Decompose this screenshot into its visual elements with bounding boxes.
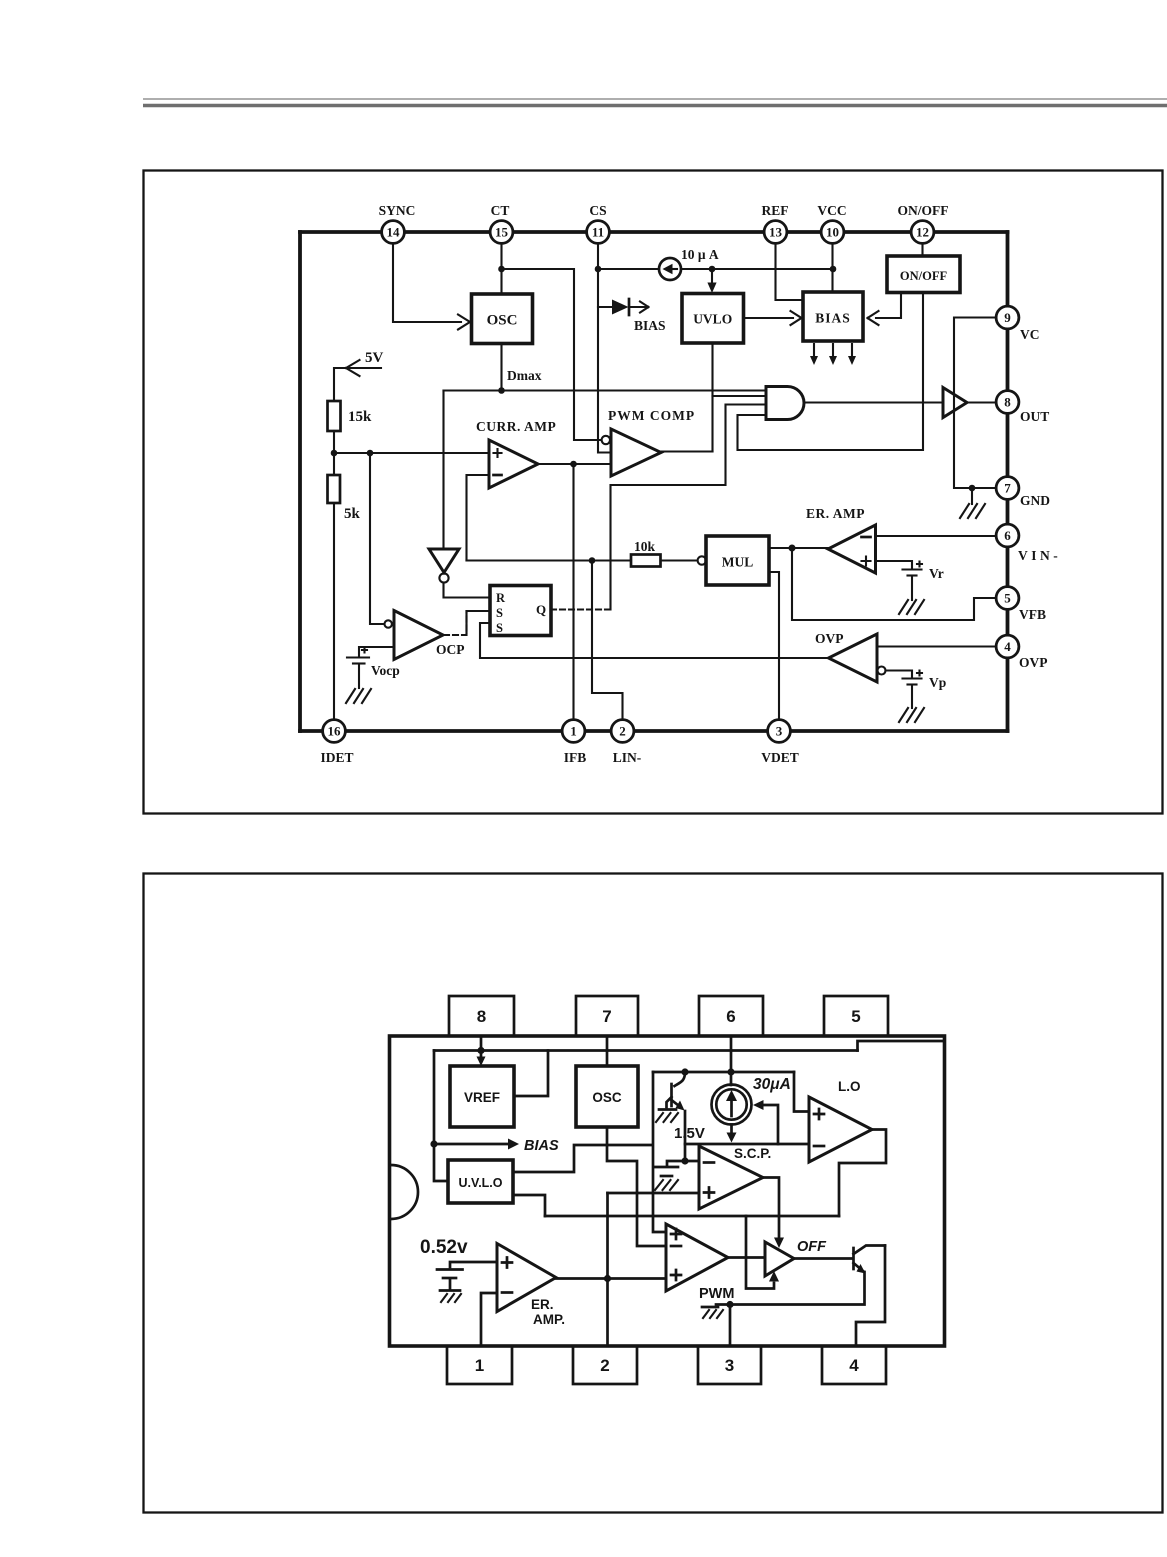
comparator S.C.P.: [699, 1146, 763, 1209]
wire UVLO upper output: [513, 1145, 653, 1172]
wire rail left corner down to PWM + top: [653, 1072, 666, 1232]
wire branch down to OFF gate bottom arrow: [746, 1216, 774, 1289]
comparator PWM: [666, 1224, 728, 1291]
wire control line to OFF gate and LO output: [545, 1215, 839, 1218]
svg-text:OVP: OVP: [815, 631, 844, 646]
svg-text:ER. AMP: ER. AMP: [806, 506, 865, 521]
ground below Vocp: [346, 689, 371, 703]
wire OVP input from pin 4: [877, 645, 996, 647]
wire OFF output to transistor base: [794, 1257, 852, 1260]
node PWM ground: [726, 1301, 733, 1308]
wire Dmax to inverter: [442, 391, 444, 550]
svg-text:VCC: VCC: [817, 203, 846, 218]
wire pin12 stub to ON/OFF block: [921, 244, 923, 257]
svg-text:2: 2: [600, 1356, 609, 1375]
svg-text:ER.: ER.: [531, 1297, 554, 1312]
svg-text:BIAS: BIAS: [815, 311, 851, 326]
svg-text:CURR. AMP: CURR. AMP: [476, 419, 556, 434]
wire OVP bubble to Vp: [886, 671, 913, 678]
svg-text:5: 5: [851, 1007, 860, 1026]
arrowhead into OFF gate top: [774, 1238, 784, 1249]
pin box 7: [576, 996, 638, 1036]
wire BIAS arrow: [434, 1143, 510, 1146]
svg-text:U.V.L.O: U.V.L.O: [459, 1176, 503, 1190]
svg-text:VREF: VREF: [464, 1090, 500, 1105]
wire buffer to OUT pin: [967, 401, 996, 403]
pin 12 ON/OFF: [898, 203, 949, 243]
buffer output stage: [943, 388, 967, 418]
op-amp ER AMP: [497, 1244, 556, 1312]
svg-text:REF: REF: [762, 203, 789, 218]
wire pin 8 rail: [434, 1037, 858, 1051]
wire UVLO down / PWM COMP output riser: [711, 344, 713, 452]
battery Vr plus mark: [917, 562, 922, 567]
IC notch: [391, 1165, 418, 1219]
wire RS-FF Q to AND gate input 3: [611, 405, 767, 610]
svg-text:CT: CT: [491, 203, 510, 218]
svg-text:IDET: IDET: [320, 750, 353, 765]
wire arrow into UVLO top: [711, 269, 713, 285]
wire VC rail to GND rail through buffer: [954, 318, 996, 489]
wire PWM output to OFF gate: [728, 1256, 765, 1259]
svg-text:Vp: Vp: [929, 675, 946, 690]
node OCP branch: [367, 450, 374, 457]
pin 2 LIN-: [611, 720, 641, 765]
arrowhead 5V: [346, 360, 360, 376]
resistor 10k: [631, 555, 661, 567]
wire REF pin to BIAS: [776, 244, 804, 301]
svg-text:15k: 15k: [348, 409, 372, 425]
pin 11 CS: [587, 203, 610, 243]
wire FB riser pin 2: [606, 1193, 609, 1346]
svg-text:OVP: OVP: [1019, 655, 1048, 670]
svg-text:VIN-: VIN-: [1018, 548, 1061, 563]
node VFB: [789, 545, 796, 552]
wire CURR AMP - feedback: [467, 475, 490, 561]
ground below Vp: [899, 708, 924, 722]
svg-text:CS: CS: [589, 203, 606, 218]
wire 15k to node: [333, 431, 335, 475]
IC boundary right bus: [1006, 232, 1010, 731]
block ON/OFF: [887, 256, 960, 293]
bubble MUL input: [698, 556, 706, 564]
pin 3 VDET: [761, 720, 799, 765]
pin 4 OVP: [996, 635, 1047, 670]
IC boundary bottom bus: [300, 729, 1008, 733]
svg-text:10: 10: [826, 225, 839, 240]
wire OSC Dmax output: [500, 344, 502, 391]
wire CS node to 10uA source and VCC node: [598, 268, 833, 270]
wire CT pin down to OSC top: [500, 244, 502, 295]
pin 16 IDET: [320, 720, 353, 765]
svg-text:OSC: OSC: [487, 313, 518, 329]
svg-text:3: 3: [725, 1356, 734, 1375]
wire current source mirror loop: [760, 1105, 778, 1144]
svg-text:PWM COMP: PWM COMP: [608, 408, 695, 423]
svg-text:S: S: [496, 606, 503, 620]
node UVLO feed: [709, 266, 716, 273]
figure frame (block diagram 2): [144, 874, 1163, 1513]
pin box 8: [449, 996, 514, 1036]
IC boundary top bus: [300, 230, 1008, 234]
op-amp CURR AMP: [489, 440, 538, 488]
battery 0.52V: [437, 1270, 463, 1290]
wire SCP + from FB line: [608, 1192, 700, 1195]
wire OCP + input to Vocp: [359, 647, 394, 656]
wire ON/OFF block to BIAS with arrowhead: [868, 293, 902, 325]
ground below SCP battery: [655, 1180, 678, 1190]
wire MUL output to ER AMP: [769, 547, 828, 549]
svg-text:L.O: L.O: [838, 1079, 861, 1094]
wire LO output return: [839, 1130, 886, 1217]
svg-text:6: 6: [1004, 528, 1011, 543]
block VREF: [450, 1066, 514, 1127]
pin box 5: [824, 996, 888, 1036]
svg-text:VDET: VDET: [761, 750, 799, 765]
wire 10k to MUL bubble: [661, 559, 698, 561]
pin 6 VIN-: [996, 524, 1061, 563]
svg-text:1: 1: [475, 1356, 484, 1375]
bubble OCP input: [385, 620, 392, 627]
ground at PWM: [702, 1305, 730, 1319]
header double rule: [143, 99, 1167, 106]
svg-text:9: 9: [1004, 310, 1011, 325]
wire ER AMP - to VIN- pin: [876, 535, 997, 537]
node BIAS: [430, 1140, 437, 1147]
svg-text:0.52v: 0.52v: [420, 1237, 468, 1258]
svg-text:15: 15: [495, 225, 509, 240]
pin box 3: [698, 1346, 761, 1384]
block MUL: [706, 536, 769, 585]
BIAS output arrows down: [810, 344, 856, 365]
svg-text:UVLO: UVLO: [693, 312, 732, 327]
svg-text:LIN-: LIN-: [613, 750, 642, 765]
op-amp ER AMP: [828, 525, 876, 573]
svg-text:MUL: MUL: [722, 555, 754, 570]
op-amp PWM COMP: [611, 429, 661, 476]
wire pin 6 stub: [730, 1037, 733, 1085]
current source 10uA: [659, 258, 681, 280]
inverter: [429, 549, 459, 583]
svg-text:5: 5: [1004, 591, 1011, 606]
wire VCC pin to BIAS top: [831, 244, 833, 293]
pin 10 VCC: [817, 203, 846, 243]
bubble OVP reference input: [878, 667, 886, 675]
wire AND output to buffer: [805, 401, 944, 403]
wire resistor node to CURR AMP +: [334, 452, 489, 454]
wire pin 7 to OSC: [606, 1037, 609, 1066]
wire 5V feed: [334, 368, 381, 401]
svg-text:8: 8: [477, 1007, 486, 1026]
wire pin 8 rail riser to top edge: [858, 1041, 944, 1051]
wire node to SCP - input: [685, 1160, 699, 1163]
svg-text:OUT: OUT: [1020, 409, 1049, 424]
pin 9 VC: [996, 306, 1039, 342]
wire UVLO to BIAS with arrowhead: [744, 311, 802, 325]
svg-text:SYNC: SYNC: [379, 203, 416, 218]
op-amp OVP: [829, 634, 878, 682]
ground below 0.52V battery: [440, 1291, 461, 1303]
wire ER AMP + to Vr: [876, 561, 913, 568]
svg-text:4: 4: [849, 1356, 859, 1375]
ground at transistor base: [656, 1110, 678, 1123]
svg-text:Q: Q: [536, 602, 546, 617]
svg-text:OFF: OFF: [797, 1239, 827, 1255]
pin box 1: [447, 1346, 512, 1384]
svg-text:GND: GND: [1020, 493, 1050, 508]
bubble PWM COMP inverting input: [602, 436, 610, 444]
svg-text:2: 2: [619, 724, 626, 739]
svg-text:VC: VC: [1020, 327, 1040, 342]
pin 7 GND: [996, 477, 1050, 508]
svg-text:3: 3: [776, 724, 783, 739]
IC package body: [390, 1036, 945, 1346]
node LIN-: [589, 557, 596, 564]
node CS branch: [595, 266, 602, 273]
arrow into VREF: [480, 1051, 483, 1059]
wire emitter node rail to LO -: [685, 1143, 809, 1146]
wire OCP output to RS-FF S input: [444, 611, 490, 635]
svg-text:BIAS: BIAS: [524, 1138, 559, 1154]
pin 14 SYNC: [379, 203, 416, 243]
wire RS-FF Q output (dashed): [551, 608, 611, 610]
wire Dmax line to AND gate input 1: [444, 389, 767, 391]
svg-text:5V: 5V: [365, 350, 384, 366]
wire minus feedback to 10k: [467, 559, 632, 561]
svg-text:R: R: [496, 591, 506, 605]
svg-text:Dmax: Dmax: [507, 368, 542, 383]
op-amp OCP: [394, 611, 443, 660]
svg-text:S: S: [496, 621, 503, 635]
wire CURR AMP output: [538, 463, 611, 465]
node SCP minus: [681, 1157, 688, 1164]
svg-text:8: 8: [1004, 395, 1011, 410]
wire transistor collector to pin 4: [856, 1246, 885, 1347]
svg-text:7: 7: [602, 1007, 611, 1026]
wire LIN- node to pin 2: [592, 561, 623, 720]
svg-text:16: 16: [328, 724, 342, 739]
svg-text:6: 6: [726, 1007, 735, 1026]
pin 13 REF: [762, 203, 789, 243]
node resistor divider: [331, 450, 338, 457]
wire MUL to VDET pin 3: [769, 572, 779, 720]
wire left rail to UVLO: [434, 1051, 448, 1182]
wire CS pin down to PWM COMP input: [598, 244, 611, 453]
pin box 4: [822, 1346, 886, 1384]
comparator L.O: [809, 1097, 872, 1162]
node IFB: [570, 461, 577, 468]
transistor output: [730, 1246, 885, 1305]
wire OSC output to PWM -: [607, 1127, 666, 1246]
wire rail right corner to LO +: [794, 1072, 809, 1112]
transistor clamp 1.5V: [667, 1072, 686, 1111]
svg-text:10k: 10k: [634, 539, 656, 554]
gate OFF: [765, 1242, 794, 1276]
wire VREF output riser to pin8 rail: [514, 1051, 548, 1097]
svg-text:1: 1: [570, 724, 577, 739]
svg-text:Vr: Vr: [929, 566, 944, 581]
wire ER AMP + input: [450, 1262, 497, 1267]
and-gate: [766, 387, 804, 420]
pin 1 IFB: [562, 720, 586, 765]
wire VFB node to pin 5: [792, 548, 996, 620]
battery Vocp plus mark: [362, 648, 367, 653]
wire emitter down to SCP - node: [684, 1111, 687, 1161]
svg-text:30μA: 30μA: [753, 1076, 791, 1093]
wire 5k to pin 16: [333, 503, 335, 720]
wire AND gate input 2: [713, 395, 767, 397]
node current source top: [727, 1068, 734, 1075]
flip-flop RS: [490, 586, 551, 636]
arrowhead into OFF gate bottom: [769, 1271, 779, 1282]
svg-text:Vocp: Vocp: [371, 663, 400, 678]
wire ER AMP output to PWM +: [556, 1277, 666, 1280]
svg-text:OSC: OSC: [592, 1090, 622, 1105]
svg-text:12: 12: [916, 225, 929, 240]
wire ON/OFF block to AND gate input 4: [738, 293, 924, 450]
svg-text:ON/OFF: ON/OFF: [898, 203, 949, 218]
diode BIAS: [612, 299, 649, 315]
svg-text:4: 4: [1004, 639, 1011, 654]
resistor 5k: [328, 475, 341, 503]
wire IFB node to pin 1: [572, 464, 574, 720]
figure frame (block diagram 1): [144, 171, 1163, 814]
node FB: [604, 1275, 611, 1282]
svg-text:PWM: PWM: [699, 1286, 734, 1302]
node VCC to BIAS: [830, 266, 837, 273]
pin box 6: [699, 996, 763, 1036]
block BIAS: [803, 292, 863, 341]
svg-text:13: 13: [769, 225, 783, 240]
svg-text:OCP: OCP: [436, 642, 465, 657]
wire pin 1 to ER AMP -: [481, 1293, 497, 1346]
wire SCP output to OFF gate top: [763, 1178, 779, 1238]
block U.V.L.O: [448, 1160, 513, 1203]
svg-text:AMP.: AMP.: [533, 1312, 565, 1327]
wire OCP inverting input from divider: [370, 453, 384, 624]
svg-text:VFB: VFB: [1019, 607, 1046, 622]
battery Vr: [903, 570, 922, 601]
wire current source bottom arrow: [730, 1125, 733, 1134]
wire diode branch from CS line: [598, 306, 612, 308]
wire pin 6 sub rail: [653, 1071, 794, 1074]
battery Vp: [903, 679, 922, 709]
pin 5 VFB: [996, 587, 1046, 622]
node CT branch: [498, 266, 505, 273]
node Dmax: [498, 387, 505, 394]
battery SCP reference: [655, 1161, 685, 1176]
battery Vocp: [347, 658, 369, 689]
svg-text:1.5V: 1.5V: [674, 1125, 705, 1142]
current source 30uA: [712, 1085, 752, 1125]
svg-text:7: 7: [1004, 481, 1011, 496]
block UVLO: [682, 294, 744, 344]
wire inverter to RS-FF R input: [444, 583, 491, 598]
svg-text:IFB: IFB: [564, 750, 587, 765]
pin 8 OUT: [996, 391, 1049, 424]
wire PWM COMP output: [661, 450, 713, 452]
wire UVLO lower output: [513, 1195, 545, 1216]
pin box 2: [573, 1346, 637, 1384]
ground below Vr: [899, 600, 924, 614]
ground at GND pin: [960, 488, 985, 518]
block OSC: [576, 1066, 638, 1127]
pin 15 CT: [490, 203, 513, 243]
wire pin 3 riser: [729, 1305, 732, 1347]
wire SYNC pin to OSC input: [393, 244, 461, 323]
svg-text:11: 11: [592, 225, 604, 240]
arrowhead into OSC: [458, 315, 470, 330]
resistor 15k: [328, 401, 341, 431]
svg-text:14: 14: [387, 225, 401, 240]
svg-text:S.C.P.: S.C.P.: [734, 1146, 771, 1161]
wire CT node to PWM COMP inverting input: [502, 269, 602, 440]
node pin 8: [477, 1047, 484, 1054]
svg-text:BIAS: BIAS: [634, 318, 666, 333]
battery Vp plus mark: [917, 671, 922, 676]
node transistor collector: [681, 1068, 688, 1075]
node GND: [969, 485, 976, 492]
IC boundary left edge: [298, 232, 302, 731]
svg-text:10 μ A: 10 μ A: [681, 247, 719, 262]
op-amp OSC box: [472, 294, 533, 344]
wire OVP output to RS-FF S2 input: [480, 623, 829, 658]
svg-text:ON/OFF: ON/OFF: [900, 269, 948, 283]
label ER. AMP.: [531, 1297, 565, 1327]
svg-text:5k: 5k: [344, 506, 361, 522]
